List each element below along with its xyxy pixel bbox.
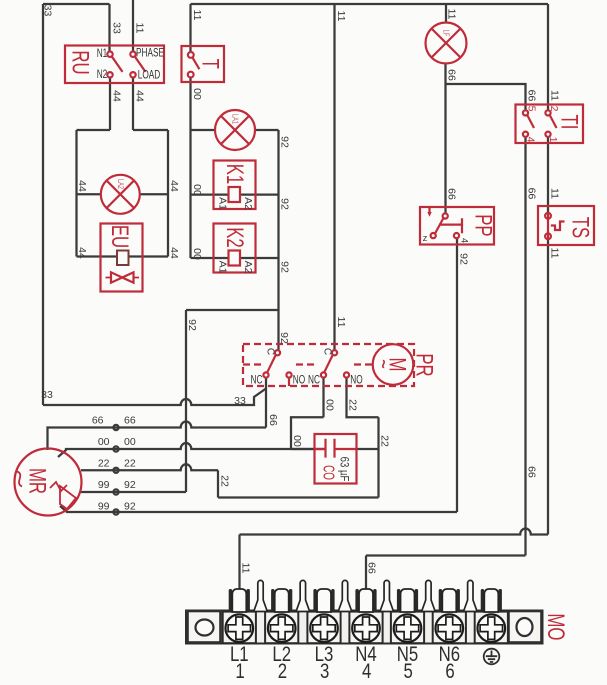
svg-text:PR: PR [411, 353, 438, 376]
junction connector circle net92b [113, 509, 118, 514]
wire K1 left lead [191, 193, 229, 195]
svg-text:66: 66 [124, 415, 136, 427]
motor MR circle [15, 449, 82, 516]
TI pin 2 [545, 110, 550, 115]
wire net92 branch horizontal at y310 [186, 309, 279, 311]
TS pin top [545, 213, 551, 219]
PR contact2 pin NC [321, 372, 326, 377]
screw 6 [436, 614, 464, 642]
terminal body 7 [475, 612, 508, 644]
svg-text:63 µF: 63 µF [337, 457, 350, 482]
svg-text:11: 11 [240, 563, 252, 574]
TI pin 4 [523, 132, 528, 137]
separator pin 5 [422, 580, 436, 611]
svg-text:LOAD: LOAD [138, 69, 161, 82]
svg-text:66: 66 [446, 188, 458, 200]
svg-text:92: 92 [458, 253, 470, 265]
svg-text:PHASE: PHASE [136, 47, 164, 60]
wire net44 right branch vertical [167, 130, 169, 257]
wire net00 MR horizontal with hop to capacitor [58, 443, 326, 457]
svg-text:LA2: LA2 [115, 179, 123, 189]
svg-text:K2: K2 [221, 227, 248, 248]
RU pin LOAD [130, 72, 135, 77]
MR thermal protector flag [60, 486, 76, 509]
svg-text:92: 92 [186, 319, 198, 331]
screw 1 [226, 614, 254, 642]
EU valve stubs [106, 277, 140, 279]
svg-text:CO: CO [320, 465, 338, 480]
svg-text:00: 00 [191, 184, 203, 196]
wire net11 PHASE from top edge [132, 0, 134, 52]
T switch arm [192, 57, 199, 69]
terminal block top dashed edge [186, 611, 542, 613]
svg-text:00: 00 [324, 399, 336, 411]
terminal 5 fork lug [397, 589, 418, 612]
wire net44 left branch vertical [75, 130, 77, 257]
lamp LF [426, 23, 467, 64]
screw 7 [478, 614, 506, 642]
svg-text:4: 4 [362, 660, 372, 683]
wire net44 from RU LOAD down [132, 78, 134, 131]
svg-text:C: C [265, 348, 276, 355]
svg-text:66: 66 [526, 188, 538, 200]
RU pin N1 [107, 52, 112, 57]
TS pin bottom [545, 233, 551, 239]
wire net22 horizontal y497 [218, 496, 379, 498]
junction connector circle net00 [113, 446, 118, 451]
PP switch arm [435, 218, 444, 234]
wire net66 NC1 vertical [265, 378, 267, 428]
TI arm 2-1 [550, 115, 557, 128]
wire LA1 right lead [255, 129, 279, 131]
relay coil K1 box [214, 161, 256, 210]
PP pin z [431, 233, 436, 238]
wire net33 drop to RU N1 [108, 4, 110, 52]
svg-text:00: 00 [124, 436, 136, 448]
wire net00 jog left [291, 417, 324, 449]
wire net92 MR second horizontal [60, 506, 457, 512]
separator pin 2 [296, 580, 310, 611]
terminal block left end cap [188, 611, 221, 643]
svg-text:z: z [423, 233, 428, 244]
svg-text:NO: NO [293, 374, 306, 387]
valve EU box [101, 224, 143, 292]
terminal 6 fork lug [439, 589, 460, 612]
RU pin N2 [107, 72, 112, 77]
svg-text:99: 99 [98, 479, 110, 491]
separator pin 6 [464, 580, 478, 611]
svg-text:66: 66 [446, 69, 458, 81]
svg-text:66: 66 [92, 415, 104, 427]
wire net00 T down through K1 K2 [189, 78, 191, 259]
wire net00 capacitor left lead [291, 448, 315, 450]
wire net66 drop to terminal N4 [365, 556, 367, 592]
svg-text:N2: N2 [97, 69, 108, 82]
wire net33 top-left horizontal [43, 3, 110, 5]
wire net33 horizontal with hop [43, 389, 266, 406]
K1 coil square [229, 187, 241, 202]
wire net44 left branch horizontal [77, 129, 111, 131]
capacitor CO box [315, 434, 357, 484]
svg-text:NO: NO [350, 374, 363, 387]
svg-text:33: 33 [41, 389, 53, 401]
wire LA2 left lead [77, 193, 102, 195]
svg-text:11: 11 [191, 10, 203, 21]
svg-text:PP: PP [469, 214, 496, 236]
relay coil K2 box [214, 224, 256, 273]
wire net00 NC2 drop [322, 378, 324, 418]
svg-text:K1: K1 [221, 164, 248, 185]
wire EU right lead [129, 255, 169, 257]
terminal body 6 [433, 612, 466, 644]
svg-text:33: 33 [42, 5, 54, 17]
wire capacitor right lead [357, 448, 379, 450]
terminal 4 fork lug [355, 589, 376, 612]
wire net22 vertical x218 [217, 470, 219, 497]
terminal body 3 [307, 612, 340, 644]
svg-text:A1: A1 [217, 197, 229, 210]
MR thermal protector zigzag [50, 482, 67, 491]
CO internal leads [315, 448, 357, 450]
svg-text:00: 00 [191, 248, 203, 260]
svg-text:66: 66 [366, 562, 378, 574]
svg-text:4: 4 [525, 137, 537, 143]
terminal body 2 [265, 612, 298, 644]
svg-text:T: T [197, 59, 224, 70]
wire K2 right lead [240, 257, 279, 259]
svg-text:92: 92 [124, 501, 136, 513]
svg-text:33: 33 [234, 395, 246, 407]
terminal 3 fork lug [313, 589, 334, 612]
separator pin 4 [380, 580, 394, 611]
K2 coil square [229, 251, 241, 266]
svg-text:00: 00 [291, 435, 303, 447]
PR contact1 pin NO stem [288, 378, 290, 386]
terminal 1 fork lug [229, 589, 250, 612]
terminal 2 fork lug [271, 589, 292, 612]
screw 5 [394, 614, 422, 642]
TI pin 5 [523, 110, 528, 115]
wire net11 TS down [547, 239, 549, 535]
wire K1 right lead [240, 193, 279, 195]
svg-text:~: ~ [370, 359, 397, 369]
svg-text:22: 22 [98, 457, 110, 469]
terminal body 5 [391, 612, 424, 644]
svg-text:92: 92 [279, 198, 291, 210]
svg-text:C: C [322, 348, 333, 355]
wire net66 TI pin4 down [524, 137, 526, 556]
screw 4 [352, 614, 380, 642]
junction connector circle net66 [113, 425, 118, 430]
svg-text:92: 92 [279, 261, 291, 273]
wire LA1 left lead [191, 129, 216, 131]
RU switch arm left [112, 57, 123, 72]
PR contact1 pin C [275, 350, 280, 355]
EU coil square [117, 251, 129, 266]
terminal 7 fork lug [481, 589, 502, 612]
PR contact2 arm [325, 355, 333, 372]
PP plunger tee [439, 218, 462, 233]
junction connector circle net22 [113, 468, 118, 473]
T pin top [188, 52, 194, 58]
separator pin 3 [338, 580, 352, 611]
svg-text:EU: EU [106, 225, 133, 248]
wire net11 top horizontal bus [191, 3, 549, 5]
svg-text:22: 22 [219, 475, 231, 487]
CO plates [326, 439, 335, 458]
svg-text:00: 00 [98, 436, 110, 448]
svg-text:11: 11 [549, 188, 561, 199]
wire net66 branch to TI pin5 [446, 84, 526, 110]
svg-text:A1: A1 [217, 261, 229, 274]
pushbutton PP box [420, 207, 494, 245]
svg-text:2: 2 [548, 106, 560, 112]
wire net22 vertical x378 capacitor right [377, 417, 379, 497]
terminal body 1 [223, 612, 256, 644]
svg-text:NC: NC [308, 374, 320, 387]
EU valve bowtie [111, 272, 134, 282]
wire net22 MR horizontal with hop [81, 464, 218, 470]
wire net11 drop to LF [445, 4, 447, 23]
PR contact2 pin C [332, 350, 337, 355]
lamp LA1 [215, 110, 255, 150]
wire net92 vertical to PP [456, 239, 458, 513]
PP actuation arrow [428, 208, 430, 214]
PR contact2 pin NO [344, 372, 349, 377]
PR contact1 pin NO [286, 372, 291, 377]
T pin bottom [188, 72, 194, 78]
TS through wire [547, 213, 549, 239]
TS sensor zigzag [551, 222, 565, 231]
contactor PR dashed box [243, 344, 414, 386]
PR contact1 arm [268, 355, 276, 372]
svg-text:A2: A2 [242, 261, 254, 274]
svg-text:6: 6 [445, 660, 454, 683]
lamp LA2 [101, 175, 140, 214]
svg-text:33: 33 [111, 22, 123, 34]
svg-text:NC: NC [251, 374, 263, 387]
svg-text:11: 11 [446, 9, 458, 20]
wire EU left lead [77, 255, 118, 257]
svg-text:A2: A2 [242, 197, 254, 210]
svg-text:LF: LF [441, 30, 449, 37]
PP pin 4 [454, 233, 459, 238]
wire net44 right branch horizontal [133, 129, 168, 131]
PR contact1 pin NC [263, 372, 268, 377]
junction connector circle net92a [113, 489, 118, 494]
svg-text:2: 2 [278, 660, 287, 683]
thermostat TS box [538, 206, 594, 245]
svg-text:44: 44 [76, 180, 88, 192]
svg-text:44: 44 [168, 180, 180, 192]
svg-text:MR: MR [24, 468, 51, 494]
svg-text:22: 22 [379, 435, 391, 447]
svg-text:11: 11 [549, 90, 561, 101]
timer T box [182, 46, 225, 82]
svg-text:5: 5 [404, 660, 413, 683]
svg-text:5: 5 [526, 106, 538, 112]
wire net66 LF to PP [444, 63, 446, 213]
svg-text:MO: MO [542, 613, 569, 640]
svg-text:LA1: LA1 [230, 114, 238, 124]
svg-text:TI: TI [556, 115, 583, 130]
svg-text:1: 1 [547, 137, 559, 143]
wire net92 branch vertical x186 [185, 310, 187, 492]
svg-text:92: 92 [278, 332, 290, 344]
svg-text:44: 44 [111, 90, 123, 102]
svg-text:22: 22 [124, 457, 136, 469]
svg-text:44: 44 [134, 90, 146, 102]
screw 3 [310, 614, 338, 642]
wire net66 MR horizontal with hop [48, 421, 267, 450]
PR motor M [373, 344, 414, 385]
wire net92 MR first horizontal [80, 491, 187, 493]
wire net92 right vertical LA1 to C1 [277, 130, 279, 350]
terminal block MO bar [186, 611, 543, 644]
svg-text:4: 4 [460, 238, 470, 243]
wire net11 drop to PR C2 [333, 4, 335, 350]
wire net33 outer-left vertical [42, 4, 44, 405]
svg-text:44: 44 [168, 247, 180, 259]
earth symbol [484, 649, 500, 665]
RU pin PHASE [130, 52, 135, 57]
svg-text:11: 11 [549, 248, 561, 259]
svg-text:11: 11 [335, 11, 347, 22]
svg-text:92: 92 [124, 479, 136, 491]
svg-text:66: 66 [526, 466, 538, 478]
svg-text:66: 66 [267, 414, 279, 426]
RU switch arm right [135, 57, 146, 72]
wire net11 drop to TI pin2 [547, 4, 549, 110]
svg-text:RU: RU [67, 50, 94, 74]
screw 2 [268, 614, 296, 642]
PR dashed linkage line [243, 363, 372, 365]
svg-text:11: 11 [335, 317, 347, 328]
PP pin top [443, 213, 448, 218]
svg-text:44: 44 [76, 247, 88, 259]
svg-text:1: 1 [235, 660, 244, 683]
wire net22 jog to NO2 [347, 378, 379, 418]
svg-text:3: 3 [320, 660, 329, 683]
wire net11 drop to T [189, 4, 191, 52]
svg-text:11: 11 [134, 23, 146, 34]
wire net11 horizontal y534 with hop [240, 529, 549, 535]
svg-text:TS: TS [567, 217, 594, 238]
separator pin 1 [254, 580, 268, 611]
wire K2 left lead [191, 257, 229, 259]
TI arm 5-4 [527, 115, 534, 128]
wire LA2 right lead [140, 193, 169, 195]
wire net66 horizontal y555 [366, 554, 526, 556]
terminal body 4 [349, 612, 382, 644]
svg-text:22: 22 [347, 399, 359, 411]
svg-text:N1: N1 [97, 48, 108, 61]
svg-text:99: 99 [98, 501, 110, 513]
svg-text:66: 66 [526, 90, 538, 102]
switch TI box [516, 105, 584, 144]
wire net44 from RU N2 down [109, 78, 111, 131]
relay RU box [65, 46, 164, 84]
TI pin 1 [545, 132, 550, 137]
MR tilde [17, 472, 22, 487]
wire net11 drop to terminal L1 [238, 535, 240, 592]
svg-text:00: 00 [191, 88, 203, 100]
wire net11 TI pin1 to TS [547, 137, 549, 213]
terminal block right end cap [509, 611, 542, 643]
svg-text:92: 92 [279, 136, 291, 148]
